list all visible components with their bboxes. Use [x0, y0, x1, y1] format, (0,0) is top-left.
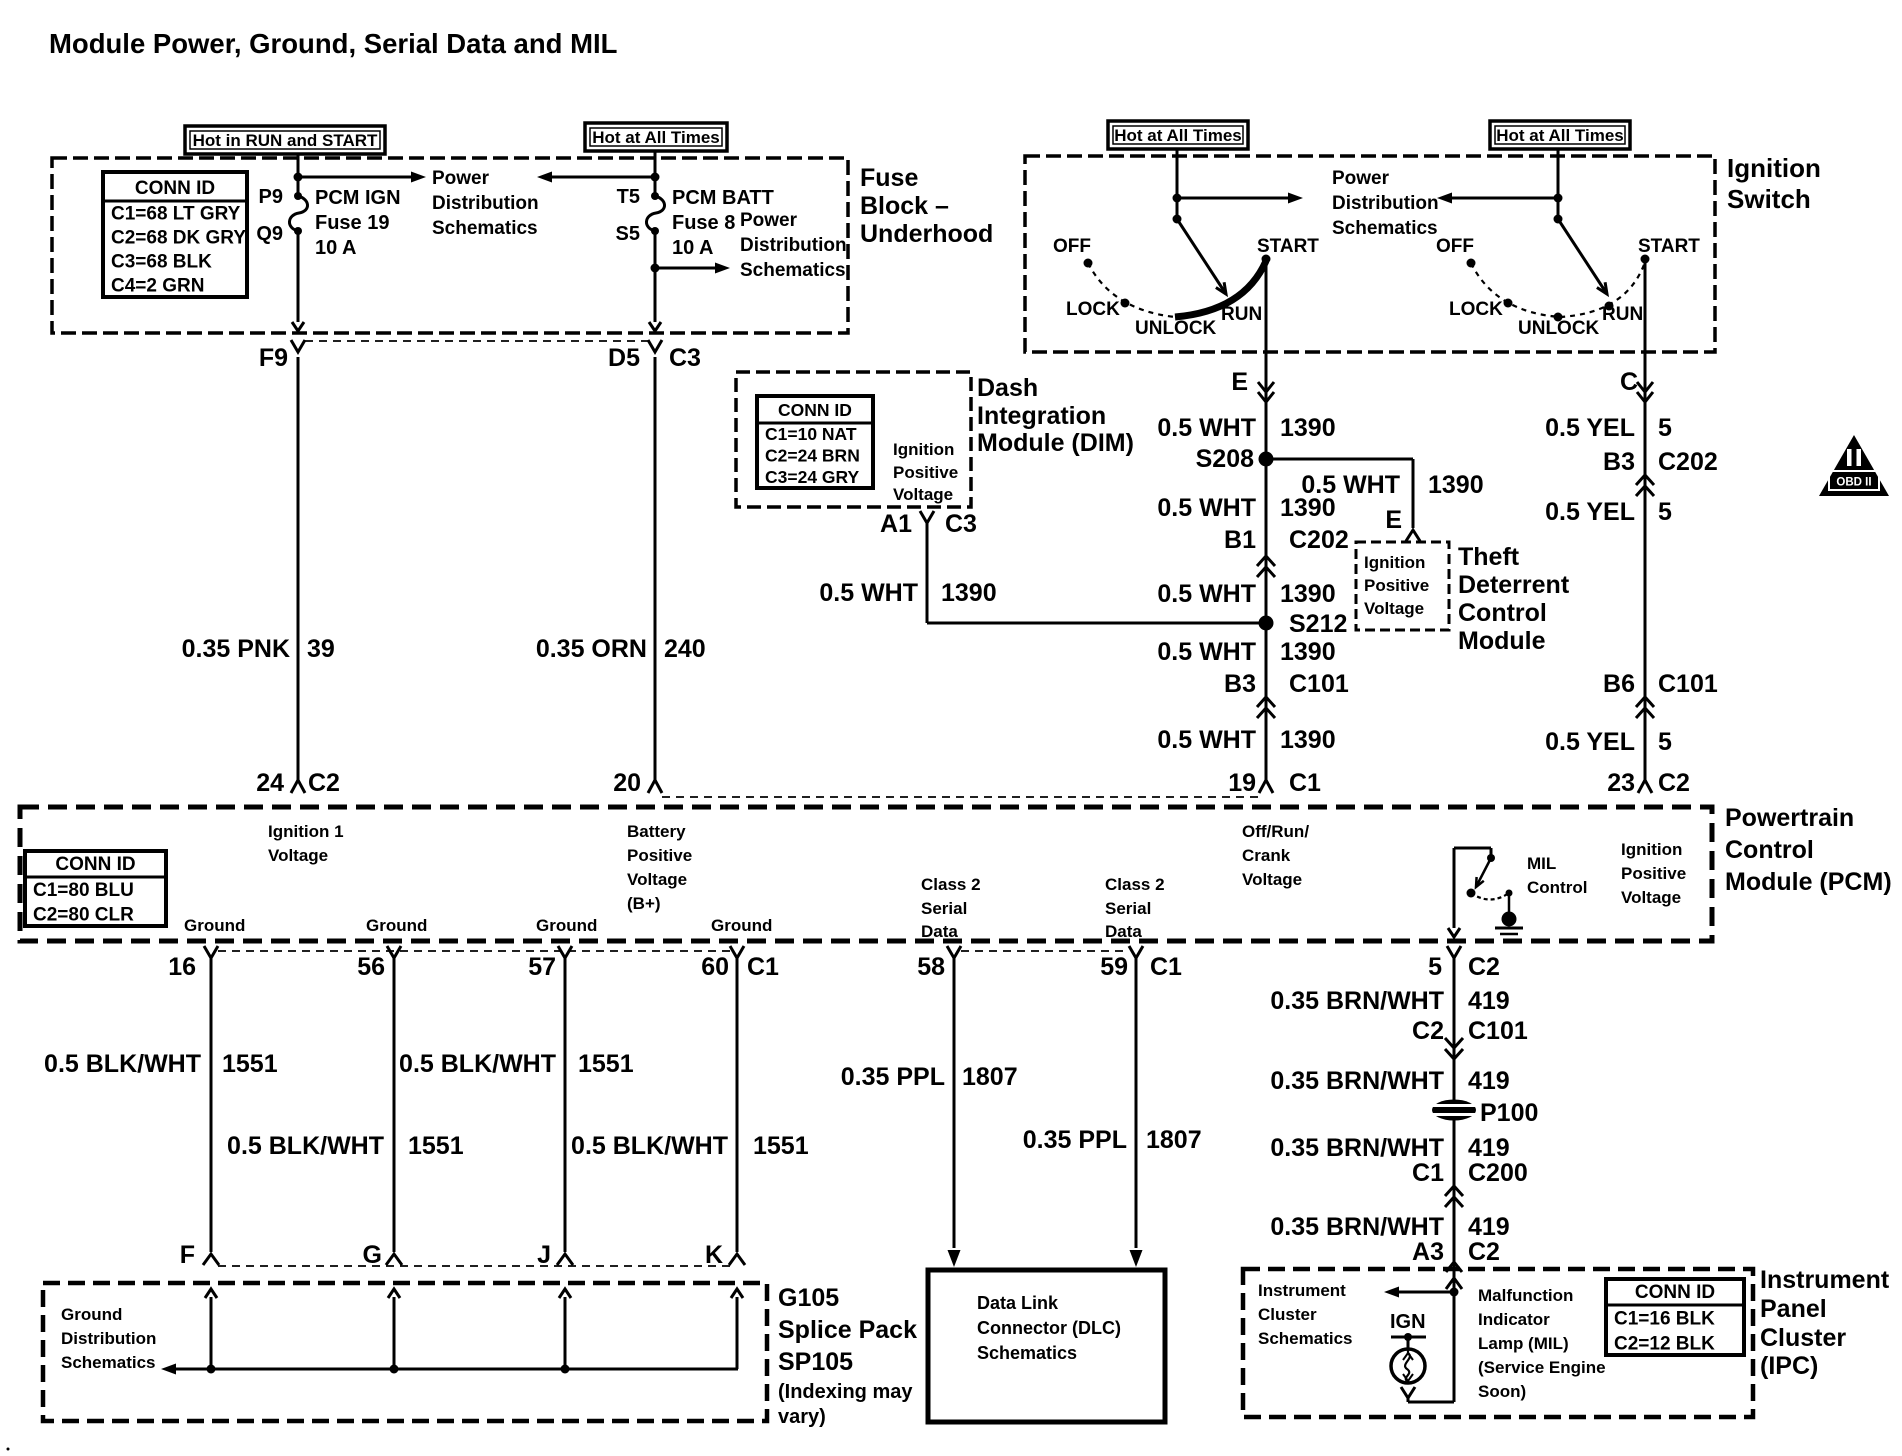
svg-text:16: 16 [168, 953, 196, 981]
wire 0.5 WHT 1390 from DIM A1 to S212 [927, 523, 1266, 623]
lamp MIL (Service Engine Soon) [1391, 1349, 1425, 1383]
label Power Distribution Schematics (ign sw) [1332, 168, 1439, 239]
svg-text:Serial: Serial [921, 899, 967, 918]
svg-text:Panel: Panel [1760, 1295, 1827, 1323]
svg-text:Lamp (MIL): Lamp (MIL) [1478, 1334, 1569, 1353]
svg-text:0.5 WHT: 0.5 WHT [1157, 414, 1256, 442]
svg-text:START: START [1257, 236, 1319, 257]
wire label 0.5 WHT 1390 (row 2) [1157, 494, 1335, 522]
CONN ID table (DIM) [757, 396, 873, 488]
svg-text:Hot at All Times: Hot at All Times [592, 128, 720, 147]
svg-text:S208: S208 [1196, 445, 1254, 473]
svg-text:CONN ID: CONN ID [778, 400, 852, 420]
svg-text:Serial: Serial [1105, 899, 1151, 918]
connector pin 5 / C2 (PCM MIL) [1428, 946, 1500, 981]
svg-text:C2=12 BLK: C2=12 BLK [1614, 1334, 1715, 1355]
svg-text:Ignition 1: Ignition 1 [268, 822, 344, 841]
svg-text:0.35 BRN/WHT: 0.35 BRN/WHT [1270, 1213, 1444, 1241]
pin function label Ground 1 [184, 916, 245, 935]
svg-text:0.35 ORN: 0.35 ORN [536, 635, 647, 663]
wire label 0.35 PPL 1807 (58) [841, 1063, 1018, 1091]
pin label S5 [616, 223, 640, 245]
svg-text:1551: 1551 [578, 1050, 634, 1078]
connector pin 23 / C2 (PCM) [1607, 769, 1690, 797]
connector pin 16 (PCM ground) [168, 946, 218, 981]
switch detent arc (left, dashed) [1088, 263, 1175, 317]
wire label 0.35 PPL 1807 (59) [1023, 1126, 1202, 1154]
pin label Q9 [256, 223, 283, 245]
svg-text:IGN: IGN [1390, 1311, 1426, 1333]
svg-text:C1=68 LT GRY: C1=68 LT GRY [111, 204, 241, 225]
svg-text:Ignition: Ignition [1621, 840, 1682, 859]
wire label 0.35 BRN/WHT 419 (row3) [1270, 1134, 1509, 1162]
node junction IPC [1450, 1288, 1459, 1297]
svg-text:Class 2: Class 2 [921, 875, 981, 894]
svg-text:19: 19 [1228, 769, 1256, 797]
svg-text:B3: B3 [1603, 448, 1635, 476]
wire 0.35 BRN/WHT 419 (PCM pin 5 to IPC A3) [1453, 958, 1456, 1269]
splice bus riser J [559, 1289, 571, 1374]
fuse PCM BATT Fuse 8 10A [646, 192, 664, 235]
node junction ign sw left lower [1173, 215, 1182, 224]
connector pin F9 [259, 340, 305, 372]
wire label 0.5 WHT 1390 (row 1) [1157, 414, 1335, 442]
label UNLOCK (left) [1135, 318, 1217, 339]
wire arrow to Power Distribution Schematics (middle-left) [537, 172, 655, 183]
svg-text:Ground: Ground [61, 1305, 122, 1324]
svg-text:Module (PCM): Module (PCM) [1725, 868, 1892, 896]
wire label 0.35 BRN/WHT 419 (row2) [1270, 1067, 1509, 1095]
connector pin G (G105) [363, 1241, 402, 1269]
svg-text:Fuse 8: Fuse 8 [672, 212, 735, 234]
svg-text:Underhood: Underhood [860, 220, 993, 248]
svg-text:Hot at All Times: Hot at All Times [1496, 126, 1624, 145]
svg-text:1807: 1807 [962, 1063, 1018, 1091]
switch position START (left) [1257, 236, 1319, 264]
svg-text:Ignition: Ignition [893, 440, 954, 459]
wire hot feed into ignition switch (right) [1557, 149, 1560, 219]
connector pin 24 / C2 (PCM) [256, 769, 340, 797]
svg-text:1390: 1390 [1280, 726, 1336, 754]
svg-text:Ignition: Ignition [1727, 153, 1821, 183]
svg-text:56: 56 [357, 953, 385, 981]
switch position START (right) [1638, 236, 1700, 264]
svg-text:C: C [1620, 368, 1638, 396]
connector pin E (theft deterrent) [1385, 506, 1420, 541]
wire label 0.5 WHT 1390 (row 5) [1157, 726, 1335, 754]
svg-text:0.5 WHT: 0.5 WHT [1157, 638, 1256, 666]
pin function label Ignition Positive Voltage (PCM) [1621, 840, 1686, 907]
power feed label "Hot at All Times" (fuse block) [585, 123, 727, 151]
svg-text:UNLOCK: UNLOCK [1518, 318, 1600, 339]
connector pin F (G105) [180, 1241, 219, 1269]
svg-text:C2: C2 [1412, 1017, 1444, 1045]
svg-text:C2: C2 [308, 769, 340, 797]
theft deterrent control module box [1356, 542, 1449, 630]
svg-text:A1: A1 [880, 510, 912, 538]
svg-text:CONN ID: CONN ID [55, 854, 135, 875]
svg-text:F9: F9 [259, 344, 288, 372]
pin function label Class 2 Serial Data (1) [921, 875, 981, 941]
wire arrow to Power Distribution Schematics (ign sw) [1177, 193, 1303, 204]
svg-text:0.5 WHT: 0.5 WHT [1157, 494, 1256, 522]
svg-text:1390: 1390 [1428, 471, 1484, 499]
svg-text:C2=80 CLR: C2=80 CLR [33, 905, 134, 926]
wire 0.5 BLK/WHT 1551 (ground F) [210, 958, 213, 1252]
svg-text:Schematics: Schematics [740, 260, 846, 281]
switch position OFF (right) [1436, 236, 1476, 268]
svg-text:Cluster: Cluster [1258, 1305, 1317, 1324]
svg-text:57: 57 [528, 953, 556, 981]
svg-text:Instrument: Instrument [1258, 1281, 1346, 1300]
wire from Hot at All Times into fuse block [654, 151, 657, 196]
dash integration module box [736, 372, 971, 507]
svg-text:G105: G105 [778, 1284, 839, 1312]
wire from Hot in RUN and START into fuse block [297, 154, 300, 196]
svg-text:C2=24 BRN: C2=24 BRN [765, 446, 860, 466]
svg-text:A3: A3 [1412, 1238, 1444, 1266]
label Data Link Connector (DLC) Schematics [977, 1293, 1121, 1363]
svg-text:C200: C200 [1468, 1159, 1528, 1187]
svg-text:5: 5 [1658, 498, 1672, 526]
wire 0.5 WHT 1390 from S208 to theft deterrent module [1266, 459, 1413, 528]
svg-text:(B+): (B+) [627, 894, 661, 913]
svg-text:59: 59 [1100, 953, 1128, 981]
wire label 0.35 PNK 39 [182, 635, 335, 663]
wire fuse19 F9 to PCM pin 24 (0.35 PNK 39) [297, 357, 300, 780]
label Ignition Positive Voltage (DIM) [893, 440, 958, 504]
pin function label Ground 2 [366, 916, 427, 935]
value label PCM BATT Fuse 8 10 A [672, 187, 774, 259]
svg-text:Power: Power [432, 168, 490, 189]
label RUN (left) [1221, 304, 1262, 325]
wire arrow to Power Distribution Schematics (left) [298, 172, 426, 183]
splice S208 [1196, 445, 1274, 473]
svg-text:0.5 BLK/WHT: 0.5 BLK/WHT [399, 1050, 556, 1078]
wire label 0.35 BRN/WHT 419 (row4) [1270, 1213, 1509, 1241]
svg-text:UNLOCK: UNLOCK [1135, 318, 1217, 339]
svg-text:0.5 BLK/WHT: 0.5 BLK/WHT [44, 1050, 201, 1078]
wire label 0.5 WHT 1390 (DIM branch) [819, 579, 996, 607]
wire ignition switch E to PCM pin 19 (0.5 WHT 1390) [1265, 259, 1268, 780]
svg-text:Schematics: Schematics [1258, 1329, 1353, 1348]
svg-text:Voltage: Voltage [893, 485, 953, 504]
svg-text:Instrument: Instrument [1760, 1266, 1890, 1294]
wire label 0.5 BLK/WHT 1551 (row2 left) [227, 1132, 464, 1160]
svg-text:0.5 WHT: 0.5 WHT [1157, 580, 1256, 608]
svg-text:C1: C1 [1150, 953, 1182, 981]
wire label 0.5 BLK/WHT 1551 (row1 left) [44, 1050, 278, 1078]
svg-text:Positive: Positive [1621, 864, 1686, 883]
svg-text:Voltage: Voltage [268, 846, 328, 865]
connector pin 19 / C1 (PCM) [1228, 769, 1321, 797]
svg-text:C3=24 GRY: C3=24 GRY [765, 467, 860, 487]
svg-text:RUN: RUN [1602, 304, 1643, 325]
svg-text:Cluster: Cluster [1760, 1324, 1846, 1352]
connector B6 / C101 (yel) [1603, 670, 1718, 718]
label IGN [1390, 1311, 1426, 1333]
pin function label Off/Run/Crank Voltage [1242, 822, 1309, 889]
switch position OFF (left) [1053, 236, 1093, 268]
connector pin 20 (PCM) [613, 769, 662, 797]
svg-text:Hot in RUN and START: Hot in RUN and START [193, 131, 378, 150]
connector pin A3 / C2 (IPC) [1412, 1238, 1500, 1272]
svg-text:0.5 BLK/WHT: 0.5 BLK/WHT [227, 1132, 384, 1160]
svg-text:39: 39 [307, 635, 335, 663]
wire label 0.5 BLK/WHT 1551 (row2 right) [571, 1132, 809, 1160]
svg-text:Powertrain: Powertrain [1725, 804, 1854, 832]
svg-text:OFF: OFF [1436, 236, 1474, 257]
connector pin K (G105) [705, 1241, 745, 1269]
svg-text:B1: B1 [1224, 526, 1256, 554]
svg-text:0.35 BRN/WHT: 0.35 BRN/WHT [1270, 1067, 1444, 1095]
svg-text:0.35 BRN/WHT: 0.35 BRN/WHT [1270, 1134, 1444, 1162]
svg-text:Connector (DLC): Connector (DLC) [977, 1318, 1121, 1338]
label Instrument Cluster Schematics [1258, 1281, 1353, 1348]
svg-text:Voltage: Voltage [1621, 888, 1681, 907]
ignition switch module box [1025, 156, 1715, 352]
svg-text:Ground: Ground [711, 916, 772, 935]
svg-text:Fuse 19: Fuse 19 [315, 212, 389, 234]
svg-text:20: 20 [613, 769, 641, 797]
svg-text:G: G [363, 1241, 382, 1269]
label Malfunction Indicator Lamp (MIL) (Service Engine Soon) [1478, 1286, 1606, 1401]
svg-text:C1: C1 [747, 953, 779, 981]
svg-text:P9: P9 [259, 186, 283, 208]
svg-text:Control: Control [1725, 836, 1814, 864]
svg-text:1551: 1551 [753, 1132, 809, 1160]
svg-text:Indicator: Indicator [1478, 1310, 1550, 1329]
svg-text:0.5 YEL: 0.5 YEL [1545, 728, 1635, 756]
svg-text:Positive: Positive [627, 846, 692, 865]
svg-text:C202: C202 [1658, 448, 1718, 476]
svg-text:C2: C2 [1468, 953, 1500, 981]
svg-text:Schematics: Schematics [432, 218, 538, 239]
wire label 0.5 YEL 5 (row 3) [1545, 728, 1672, 756]
svg-text:Module: Module [1458, 627, 1546, 655]
svg-text:Off/Run/: Off/Run/ [1242, 822, 1309, 841]
svg-text:CONN ID: CONN ID [1635, 1282, 1715, 1303]
svg-text:Malfunction: Malfunction [1478, 1286, 1573, 1305]
module name Powertrain Control Module (PCM) [1725, 804, 1892, 896]
wire label 0.5 YEL 5 (row 2) [1545, 498, 1672, 526]
pin function label Ground 4 [711, 916, 772, 935]
svg-text:C101: C101 [1289, 670, 1349, 698]
svg-text:C1: C1 [1412, 1159, 1444, 1187]
wire 0.35 PPL 1807 (pin 58 to DLC) [948, 958, 961, 1267]
svg-text:B3: B3 [1224, 670, 1256, 698]
arrow to ground distribution schematics [161, 1364, 738, 1375]
svg-text:Deterrent: Deterrent [1458, 571, 1570, 599]
svg-text:419: 419 [1468, 1213, 1510, 1241]
svg-text:B6: B6 [1603, 670, 1635, 698]
svg-text:K: K [705, 1241, 723, 1269]
wire 0.5 BLK/WHT 1551 (ground J) [564, 958, 567, 1252]
CONN ID table (PCM) [25, 851, 166, 926]
connector line C3 (fuse block bottom) [305, 340, 648, 342]
svg-text:24: 24 [256, 769, 284, 797]
svg-text:C2=68 DK GRY: C2=68 DK GRY [111, 228, 246, 249]
svg-text:RUN: RUN [1221, 304, 1262, 325]
connector pin J (G105) [537, 1241, 573, 1269]
instrument panel cluster box [1243, 1269, 1753, 1417]
module name Dash Integration Module (DIM) [977, 374, 1134, 457]
connector pin C (ignition switch) [1620, 368, 1653, 402]
connector pin D5 / C3 [608, 340, 701, 372]
value label PCM IGN Fuse 19 10 A [315, 187, 401, 259]
svg-text:Distribution: Distribution [740, 235, 847, 256]
svg-text:vary): vary) [778, 1406, 826, 1428]
connector pin 56 (PCM ground) [357, 946, 401, 981]
fuse block - underhood module box [52, 158, 848, 333]
switch RUN-START contact arc (left, thick) [1175, 261, 1266, 317]
svg-text:C3=68 BLK: C3=68 BLK [111, 252, 212, 273]
svg-text:CONN ID: CONN ID [135, 178, 215, 199]
svg-text:0.5 WHT: 0.5 WHT [819, 579, 918, 607]
splice bus riser K [731, 1289, 743, 1369]
module name Ignition Switch [1727, 153, 1821, 214]
svg-text:PCM IGN: PCM IGN [315, 187, 401, 209]
switch position LOCK (left) [1066, 299, 1130, 321]
svg-text:Theft: Theft [1458, 543, 1520, 571]
wire label 0.35 ORN 240 [536, 635, 706, 663]
label Power Distribution Schematics (left) [432, 168, 539, 239]
svg-text:START: START [1638, 236, 1700, 257]
title [49, 28, 617, 59]
svg-text:Data: Data [1105, 922, 1142, 941]
switch wiper arrow (right ignition switch) [1558, 219, 1607, 294]
svg-text:240: 240 [664, 635, 706, 663]
svg-text:S5: S5 [616, 223, 640, 245]
svg-text:Ground: Ground [536, 916, 597, 935]
power feed label "Hot at All Times" (ign sw left) [1108, 121, 1248, 149]
svg-text:C3: C3 [669, 344, 701, 372]
connector pin 60 / C1 (PCM ground) [701, 946, 779, 981]
wire MIL control to PCM pin 5 [1448, 848, 1460, 937]
svg-text:1390: 1390 [1280, 414, 1336, 442]
switch position LOCK (right) [1449, 299, 1513, 321]
wire label 0.5 YEL 5 (row 1) [1545, 414, 1672, 442]
G105 splice pack box [43, 1283, 767, 1421]
artifact dot [7, 1448, 10, 1451]
wire label 0.5 WHT 1390 (row 3) [1157, 580, 1335, 608]
CONN ID table (fuse block) [103, 172, 247, 297]
wire fuse19 to F9 [292, 231, 304, 331]
svg-text:Voltage: Voltage [1364, 599, 1424, 618]
wire MIL lamp loop (IPC) [1408, 1292, 1454, 1402]
pin function label Ignition 1 Voltage [268, 822, 344, 865]
module name G105 Splice Pack SP105 [778, 1284, 917, 1428]
svg-text:MIL: MIL [1527, 854, 1556, 873]
svg-text:0.5 BLK/WHT: 0.5 BLK/WHT [571, 1132, 728, 1160]
wire ignition switch C to PCM pin 23 (0.5 YEL 5) [1644, 259, 1647, 780]
svg-text:Voltage: Voltage [627, 870, 687, 889]
splice bus riser F [205, 1289, 217, 1374]
wire fuse8 D5 to PCM pin 20 (0.35 ORN 240) [654, 357, 657, 780]
module name Theft Deterrent Control Module [1458, 543, 1570, 655]
svg-text:Distribution: Distribution [1332, 193, 1439, 214]
label Power Distribution Schematics (fuse block right) [740, 210, 847, 281]
fuse PCM IGN Fuse 19 10A [289, 192, 307, 235]
svg-text:0.35 PPL: 0.35 PPL [1023, 1126, 1127, 1154]
svg-text:419: 419 [1468, 1067, 1510, 1095]
svg-text:Ignition: Ignition [1364, 553, 1425, 572]
svg-text:C3: C3 [945, 510, 977, 538]
data link connector box [928, 1270, 1165, 1422]
svg-text:60: 60 [701, 953, 729, 981]
wire arrow to Power Distribution Schematics (ign sw right) [1437, 193, 1558, 204]
svg-text:SP105: SP105 [778, 1348, 853, 1376]
svg-text:OBD II: OBD II [1836, 477, 1871, 489]
pin label P9 [259, 186, 283, 208]
connector pin 57 (PCM ground) [528, 946, 572, 981]
connector line (G105 top) [218, 1265, 730, 1267]
connector pin 58 (PCM serial) [917, 946, 961, 981]
svg-text:Distribution: Distribution [432, 193, 539, 214]
switch detent arc (right, dashed) [1471, 262, 1645, 317]
svg-text:P100: P100 [1480, 1099, 1538, 1127]
svg-text:58: 58 [917, 953, 945, 981]
wire label 0.5 BLK/WHT 1551 (row1 right) [399, 1050, 634, 1078]
svg-text:E: E [1385, 506, 1402, 534]
svg-text:(Service Engine: (Service Engine [1478, 1358, 1606, 1377]
wire arrow to instrument cluster schematics [1384, 1287, 1454, 1298]
connector C2 / C101 [1412, 1017, 1528, 1059]
switch wiper arrow (left ignition switch) [1177, 219, 1226, 294]
connector line C1 (PCM bottom serial) [961, 950, 1128, 952]
grommet P100 [1432, 1099, 1538, 1127]
svg-text:Control: Control [1527, 878, 1587, 897]
MIL control driver switch [1454, 848, 1513, 912]
svg-text:1807: 1807 [1146, 1126, 1202, 1154]
connector at lamp bottom [1401, 1387, 1415, 1402]
svg-text:Block –: Block – [860, 192, 949, 220]
svg-text:C101: C101 [1468, 1017, 1528, 1045]
node junction at PCM IGN feed [294, 173, 303, 182]
svg-text:Dash: Dash [977, 374, 1038, 402]
svg-text:C1=10 NAT: C1=10 NAT [765, 424, 857, 444]
label Ignition Positive Voltage (theft) [1364, 553, 1429, 618]
node junction ign sw left [1173, 194, 1182, 203]
connector line C1/C2 (PCM top) [662, 796, 1258, 798]
module name Instrument Panel Cluster (IPC) [1760, 1266, 1890, 1380]
svg-text:Module Power, Ground, Serial D: Module Power, Ground, Serial Data and MI… [49, 28, 617, 59]
svg-text:5: 5 [1658, 728, 1672, 756]
svg-text:419: 419 [1468, 987, 1510, 1015]
svg-text:10 A: 10 A [672, 237, 714, 259]
svg-text:Switch: Switch [1727, 184, 1811, 214]
switch position UNLOCK dot (right) [1518, 313, 1600, 340]
svg-text:C1=16 BLK: C1=16 BLK [1614, 1309, 1715, 1330]
svg-text:LOCK: LOCK [1066, 299, 1120, 320]
svg-text:10 A: 10 A [315, 237, 357, 259]
svg-text:1390: 1390 [1280, 494, 1336, 522]
CONN ID table (IPC) [1606, 1279, 1744, 1355]
svg-text:1551: 1551 [222, 1050, 278, 1078]
svg-text:C1=80 BLU: C1=80 BLU [33, 880, 134, 901]
svg-text:Schematics: Schematics [61, 1353, 156, 1372]
connector B1 / C202 [1224, 526, 1349, 577]
svg-text:Schematics: Schematics [977, 1343, 1077, 1363]
powertrain control module box [20, 807, 1712, 941]
svg-text:Power: Power [740, 210, 798, 231]
wire label 0.5 WHT 1390 (theft branch) [1301, 471, 1483, 499]
splice S212 [1259, 610, 1348, 638]
svg-text:1551: 1551 [408, 1132, 464, 1160]
node junction below fuse 8 [651, 264, 660, 273]
pin function label Battery Positive Voltage (B+) [627, 822, 692, 913]
wire hot feed into ignition switch (left) [1176, 149, 1179, 219]
